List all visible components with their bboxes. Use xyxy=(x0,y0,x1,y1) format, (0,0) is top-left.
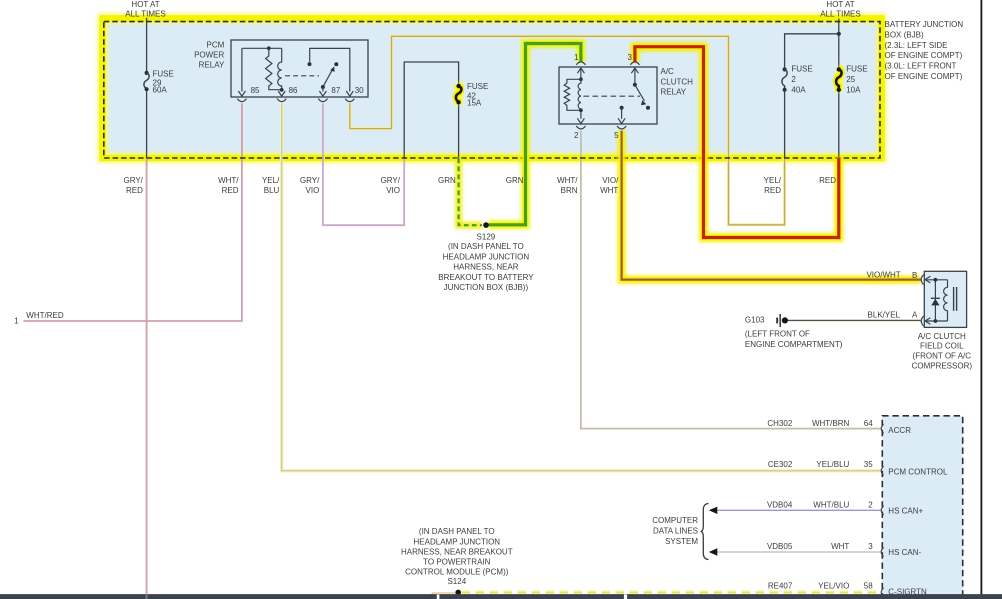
svg-text:FUSE: FUSE xyxy=(846,65,867,74)
svg-text:RED: RED xyxy=(819,176,836,185)
wire: branch to fuse 2 xyxy=(785,34,839,68)
svg-text:HS CAN+: HS CAN+ xyxy=(888,506,923,515)
pin 1 wire xyxy=(580,68,582,79)
svg-text:58: 58 xyxy=(864,581,873,590)
wire: fuse 2 to BJB bottom xyxy=(784,92,786,159)
PCM relay pin 85 wire xyxy=(241,48,243,91)
coil (PCM relay winding) xyxy=(278,48,282,91)
connector arcs pins 2,5 (below box) xyxy=(576,126,585,129)
svg-text:30: 30 xyxy=(355,86,364,95)
wire: hot feed at right into fuses 2/25 xyxy=(838,19,840,68)
svg-text:1: 1 xyxy=(574,53,579,62)
label: splice S124 xyxy=(401,527,513,586)
svg-text:CLUTCH: CLUTCH xyxy=(661,77,694,86)
svg-text:(IN DASH PANEL TO: (IN DASH PANEL TO xyxy=(448,242,524,251)
svg-text:BLU: BLU xyxy=(264,186,280,195)
PCM power relay box xyxy=(231,40,368,97)
gray stub below S124 xyxy=(437,593,439,599)
pin 5 contact xyxy=(620,106,624,110)
resistor (PCM relay coil suppression) xyxy=(266,48,282,89)
dashed actuation line xyxy=(285,75,319,77)
wire: hot feed into fuse 29 xyxy=(146,18,148,72)
svg-text:GRN: GRN xyxy=(506,176,524,185)
svg-text:PCM: PCM xyxy=(207,40,225,49)
svg-text:RELAY: RELAY xyxy=(661,87,687,96)
fuse 42 15A (highlighted) xyxy=(456,84,462,105)
svg-text:BLK/YEL: BLK/YEL xyxy=(868,310,901,319)
svg-text:CH302: CH302 xyxy=(767,419,792,428)
dashed actuation line xyxy=(584,95,641,97)
svg-text:CONTROL MODULE (PCM)): CONTROL MODULE (PCM)) xyxy=(405,567,509,576)
svg-text:BOX (BJB): BOX (BJB) xyxy=(885,30,924,39)
svg-text:WHT/RED: WHT/RED xyxy=(26,311,64,320)
svg-text:10A: 10A xyxy=(846,86,861,95)
wire: fuse 42 feed branch inside BJB xyxy=(404,62,458,158)
svg-text:86: 86 xyxy=(289,86,298,95)
wire WHT/RED from relay pin 85 to left connector 1 xyxy=(23,103,242,321)
node: splice S129 xyxy=(483,222,489,228)
ground G103 xyxy=(776,314,788,327)
curly brace computer data lines xyxy=(701,503,709,559)
svg-text:ACCR: ACCR xyxy=(888,426,911,435)
svg-text:RE407: RE407 xyxy=(768,581,793,590)
svg-text:BRN: BRN xyxy=(561,186,578,195)
wire WHT (VDB05) to PCM xyxy=(717,551,881,553)
arrows pins 1,3 (top) xyxy=(577,68,584,73)
svg-text:60A: 60A xyxy=(153,85,168,94)
PCM control module box (dashed) xyxy=(881,416,963,599)
wire RED from A/C relay pin 3 to fuse 25 xyxy=(635,47,839,238)
svg-text:JUNCTION BOX (BJB)): JUNCTION BOX (BJB)) xyxy=(444,283,529,292)
A/C clutch field coil box xyxy=(921,271,966,327)
svg-text:15A: 15A xyxy=(467,99,482,108)
svg-text:A/C: A/C xyxy=(661,67,675,76)
pin A arrow xyxy=(925,318,930,325)
rails xyxy=(926,279,948,281)
wire tan stub into splice S124 xyxy=(432,593,455,599)
resistor (A/C relay) xyxy=(564,79,581,110)
svg-text:BATTERY JUNCTION: BATTERY JUNCTION xyxy=(885,20,964,29)
wire BLK/YEL from ground G103 to A/C clutch field coil pin A xyxy=(788,319,921,321)
svg-text:(IN DASH PANEL TO: (IN DASH PANEL TO xyxy=(419,527,495,536)
svg-text:WHT: WHT xyxy=(600,186,618,195)
svg-text:FIELD COIL: FIELD COIL xyxy=(920,342,964,351)
svg-text:FUSE: FUSE xyxy=(791,65,812,74)
thrown contact node xyxy=(334,62,338,66)
wire YEL/VIO (RE407) dashed from S124 to PCM xyxy=(462,590,880,595)
wire YEL/BLU from relay pin 86 to PCM (CE302) xyxy=(282,103,881,471)
bottom divider bar xyxy=(0,594,1002,599)
svg-text:WHT/BRN: WHT/BRN xyxy=(812,419,850,428)
node xyxy=(280,88,284,92)
svg-text:HEADLAMP JUNCTION: HEADLAMP JUNCTION xyxy=(414,538,501,547)
svg-text:5: 5 xyxy=(614,131,619,140)
connector arcs pins 1,3 (above box) xyxy=(576,62,585,65)
svg-text:HOT AT: HOT AT xyxy=(131,0,159,9)
svg-text:3: 3 xyxy=(628,53,633,62)
svg-text:HOT AT: HOT AT xyxy=(826,0,854,9)
node: splice S124 xyxy=(455,590,461,596)
svg-text:YEL/: YEL/ xyxy=(262,176,280,185)
svg-text:YEL/: YEL/ xyxy=(764,176,782,185)
svg-text:WHT/: WHT/ xyxy=(218,176,239,185)
svg-text:CE302: CE302 xyxy=(768,460,793,469)
svg-text:A/C CLUTCH: A/C CLUTCH xyxy=(918,332,966,341)
svg-text:VIO: VIO xyxy=(306,186,320,195)
svg-text:OF ENGINE COMPT): OF ENGINE COMPT) xyxy=(885,72,963,81)
pin B arrow xyxy=(925,276,930,283)
switch arm pin 87 xyxy=(323,70,332,87)
svg-text:RED: RED xyxy=(126,186,143,195)
svg-text:BREAKOUT TO BATTERY: BREAKOUT TO BATTERY xyxy=(438,273,534,282)
field coil winding xyxy=(944,280,948,321)
svg-text:HEADLAMP JUNCTION: HEADLAMP JUNCTION xyxy=(443,252,530,261)
svg-text:ALL TIMES: ALL TIMES xyxy=(125,10,165,19)
wire GRY/RED from fuse 29 down page xyxy=(146,158,148,599)
svg-text:85: 85 xyxy=(251,86,260,95)
wire: fuse 29 to BJB bottom xyxy=(146,91,148,159)
svg-text:RED: RED xyxy=(222,186,239,195)
wire YEL/RED from relay pin 30 to fuse 2 xyxy=(350,36,785,225)
svg-text:ALL TIMES: ALL TIMES xyxy=(820,10,860,19)
wire VIO/WHT from A/C relay pin 5 to field coil pin B xyxy=(622,131,921,280)
svg-text:3: 3 xyxy=(868,542,873,551)
wire GRN solid from S129 to A/C relay pin 1 xyxy=(489,44,581,225)
svg-text:SYSTEM: SYSTEM xyxy=(665,537,698,546)
node: feed junction xyxy=(837,32,841,36)
svg-text:(2.3L: LEFT SIDE: (2.3L: LEFT SIDE xyxy=(885,41,948,50)
svg-text:HARNESS, NEAR: HARNESS, NEAR xyxy=(453,263,519,272)
svg-text:VIO: VIO xyxy=(386,186,400,195)
contact node xyxy=(308,62,312,66)
svg-text:87: 87 xyxy=(331,86,340,95)
network arrow VDB05 xyxy=(709,548,718,555)
svg-text:VDB04: VDB04 xyxy=(767,501,793,510)
svg-text:RED: RED xyxy=(764,186,781,195)
battery junction box (BJB) highlighted area xyxy=(103,18,882,158)
fuse 29 60A xyxy=(144,71,149,91)
svg-text:S129: S129 xyxy=(477,232,496,241)
svg-text:FUSE: FUSE xyxy=(153,70,174,79)
connector arcs outside xyxy=(921,275,923,285)
coil (A/C relay winding) xyxy=(578,79,581,119)
PCM relay switch rail to pin 30 xyxy=(310,48,350,91)
svg-text:A: A xyxy=(912,311,918,320)
pin 3 wire xyxy=(634,68,636,85)
thick glowing wires xyxy=(459,44,921,280)
svg-text:2: 2 xyxy=(574,131,579,140)
node xyxy=(267,46,271,50)
svg-text:ENGINE COMPARTMENT): ENGINE COMPARTMENT) xyxy=(745,340,843,349)
svg-text:POWER: POWER xyxy=(194,50,224,59)
svg-text:40A: 40A xyxy=(791,86,806,95)
fuse 25 10A (highlighted) xyxy=(836,67,842,92)
svg-text:DATA LINES: DATA LINES xyxy=(653,527,698,536)
svg-text:G103: G103 xyxy=(745,315,765,324)
svg-text:PCM CONTROL: PCM CONTROL xyxy=(888,467,948,476)
svg-text:GRY/: GRY/ xyxy=(123,176,143,185)
diode xyxy=(934,280,936,321)
svg-text:HS CAN-: HS CAN- xyxy=(888,548,921,557)
svg-text:GRN: GRN xyxy=(438,176,456,185)
svg-text:VDB05: VDB05 xyxy=(767,542,793,551)
svg-text:OF ENGINE COMPT): OF ENGINE COMPT) xyxy=(885,51,963,60)
arrows pins 2,5 (bottom) xyxy=(577,118,584,123)
wire: fuse 42 to BJB bottom xyxy=(458,104,460,159)
svg-text:WHT/: WHT/ xyxy=(557,176,578,185)
svg-text:2: 2 xyxy=(868,501,873,510)
wire GRY/VIO from relay pin 87 loop up to fuse 42 branch xyxy=(323,103,404,225)
svg-text:TO POWERTRAIN: TO POWERTRAIN xyxy=(423,557,490,566)
svg-text:YEL/VIO: YEL/VIO xyxy=(818,581,849,590)
svg-text:64: 64 xyxy=(864,419,873,428)
PCM pin connector arcs xyxy=(881,424,883,433)
network arrow VDB04 xyxy=(709,507,718,514)
svg-text:COMPRESSOR): COMPRESSOR) xyxy=(912,362,973,371)
wire WHT/BRN from A/C relay pin 2 to PCM (CH302) xyxy=(581,131,881,429)
switch arm pin 3 xyxy=(635,85,645,101)
pin arrows at box bottom xyxy=(238,91,245,96)
svg-text:WHT/BLU: WHT/BLU xyxy=(813,501,849,510)
svg-text:1: 1 xyxy=(14,316,19,325)
PCM relay top rail xyxy=(242,47,282,49)
svg-text:GRY/: GRY/ xyxy=(381,176,401,185)
wire WHT/BLU (VDB04) to PCM xyxy=(717,509,881,511)
core bars xyxy=(953,287,955,311)
svg-text:35: 35 xyxy=(864,460,873,469)
right page border xyxy=(980,0,982,599)
fuse 2 40A xyxy=(782,67,787,92)
wire: fuse 25 to BJB bottom xyxy=(838,92,840,159)
svg-text:(LEFT FRONT OF: (LEFT FRONT OF xyxy=(745,330,810,339)
pin connector arcs xyxy=(237,99,246,102)
svg-text:(3.0L: LEFT FRONT: (3.0L: LEFT FRONT xyxy=(885,62,957,71)
svg-text:HARNESS, NEAR BREAKOUT: HARNESS, NEAR BREAKOUT xyxy=(401,548,513,557)
svg-text:(FRONT OF A/C: (FRONT OF A/C xyxy=(913,352,972,361)
svg-text:YEL/BLU: YEL/BLU xyxy=(816,460,849,469)
svg-text:COMPUTER: COMPUTER xyxy=(652,516,698,525)
svg-text:RELAY: RELAY xyxy=(199,60,225,69)
svg-text:VIO/: VIO/ xyxy=(602,176,619,185)
svg-text:25: 25 xyxy=(846,75,855,84)
svg-text:VIO/WHT: VIO/WHT xyxy=(866,271,900,280)
A/C clutch relay box xyxy=(559,67,657,124)
svg-text:S124: S124 xyxy=(447,577,466,586)
BJB dashed border xyxy=(104,22,880,158)
svg-text:WHT: WHT xyxy=(831,542,849,551)
wire GRN dashed from fuse 42 to splice S129 xyxy=(459,159,482,226)
svg-text:FUSE: FUSE xyxy=(467,82,488,91)
svg-text:B: B xyxy=(912,271,917,280)
svg-text:GRY/: GRY/ xyxy=(300,176,320,185)
svg-text:2: 2 xyxy=(791,75,796,84)
